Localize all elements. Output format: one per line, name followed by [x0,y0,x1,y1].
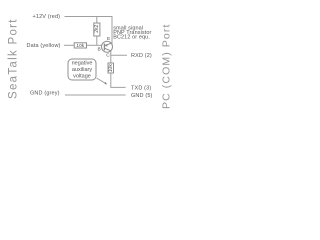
svg-text:GND (grey): GND (grey) [30,91,60,97]
svg-text:SeaTalk Port: SeaTalk Port [8,18,20,99]
svg-text:negative: negative [72,60,93,66]
svg-text:auxiliary: auxiliary [72,67,92,73]
svg-text:PC (COM) Port: PC (COM) Port [161,24,173,109]
svg-text:GND (5): GND (5) [131,93,153,99]
svg-text:E: E [107,36,110,42]
svg-text:RXD (2): RXD (2) [131,53,152,59]
svg-text:Data (yellow): Data (yellow) [27,43,61,49]
svg-text:TXD (3): TXD (3) [131,85,151,91]
svg-text:10k: 10k [108,64,114,73]
svg-text:B: B [98,46,101,52]
svg-text:2k2: 2k2 [94,24,100,32]
svg-text:10k: 10k [76,43,84,49]
svg-text:+12V (red): +12V (red) [33,14,61,20]
svg-text:C: C [106,53,110,59]
svg-text:voltage: voltage [73,74,91,80]
svg-text:BC212 or equ.: BC212 or equ. [113,35,150,41]
